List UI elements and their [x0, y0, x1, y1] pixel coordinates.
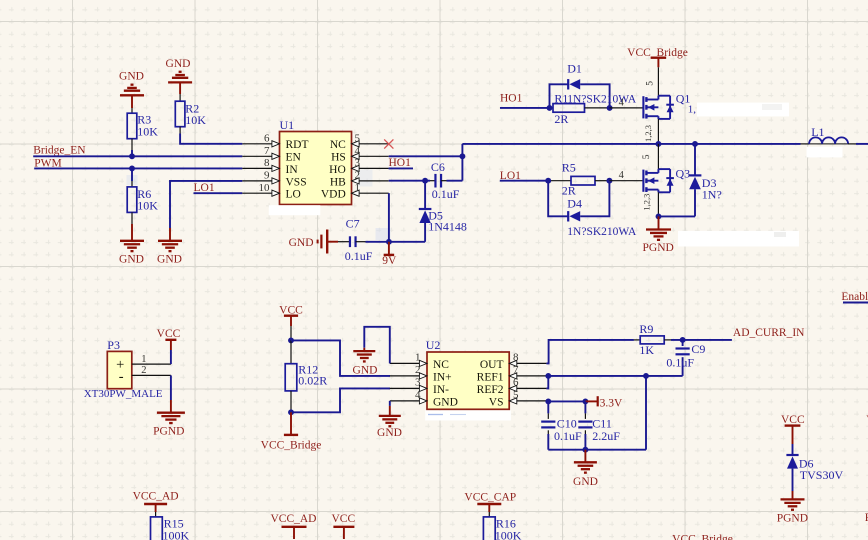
wire HO1 to R1	[500, 107, 553, 109]
svg-text:HB: HB	[330, 176, 346, 188]
wire HS node	[389, 144, 463, 181]
U2 pin 1 NC	[390, 352, 450, 371]
junction HS	[459, 153, 465, 159]
svg-text:NC: NC	[433, 359, 449, 371]
svg-text:GND: GND	[119, 253, 144, 265]
U2 pin 3 IN-	[390, 377, 449, 396]
svg-text:VCC: VCC	[157, 328, 181, 340]
ground GND for VSS	[157, 228, 182, 265]
power port VCC_AD above R15	[133, 491, 179, 517]
svg-text:VCC_Bridge: VCC_Bridge	[261, 440, 322, 452]
op-amp U2	[426, 338, 510, 409]
svg-text:NC: NC	[330, 139, 346, 151]
resistor R5 2R	[562, 161, 610, 198]
Q1 source pin 1,2,3	[643, 119, 658, 144]
svg-text:2R: 2R	[562, 184, 576, 198]
svg-text:VCC: VCC	[331, 513, 355, 525]
svg-text:1N4148: 1N4148	[428, 219, 467, 233]
svg-text:4: 4	[415, 389, 421, 401]
svg-text:AD_CURR_IN: AD_CURR_IN	[733, 327, 805, 339]
net label HO1 at U1 pin3	[389, 157, 412, 169]
svg-text:1,: 1,	[688, 103, 697, 115]
capacitor C6 0.1uF	[430, 160, 460, 201]
junction VS/C10	[545, 398, 551, 404]
svg-text:U1: U1	[280, 118, 295, 132]
wire VCC_Bridge to Q1 drain	[646, 67, 659, 95]
junction HB	[422, 178, 428, 184]
wire U2 NC to ground	[364, 327, 390, 364]
svg-text:9V: 9V	[382, 255, 397, 267]
svg-text:1,2,3: 1,2,3	[643, 125, 653, 142]
ground PGND at Q3	[643, 216, 674, 254]
svg-text:4: 4	[619, 170, 625, 181]
ground PGND below P3	[153, 400, 185, 437]
junction at R1 right	[607, 105, 613, 111]
svg-text:PGND: PGND	[643, 242, 674, 254]
svg-text:3: 3	[355, 157, 361, 169]
svg-text:REF2: REF2	[477, 384, 504, 396]
wire Bridge_EN	[33, 155, 242, 157]
svg-text:EN: EN	[286, 152, 302, 164]
diode D4 1N?SK210WA	[567, 197, 637, 238]
wire VS row	[546, 400, 585, 402]
svg-text:2R: 2R	[554, 112, 568, 126]
ground PGND below D6	[777, 491, 808, 524]
svg-text:6: 6	[513, 377, 519, 389]
svg-text:100K: 100K	[495, 529, 522, 540]
wire R2 to U1 pin6	[180, 134, 242, 144]
svg-text:D1: D1	[567, 62, 582, 76]
transistor Q3 (N-MOSFET)	[643, 166, 690, 192]
ground GND for U2 pin4	[377, 406, 402, 439]
junction on PWM	[129, 165, 135, 171]
svg-text:9: 9	[264, 170, 270, 182]
U1 pin 8 IN	[242, 157, 298, 176]
svg-text:4: 4	[619, 97, 625, 108]
svg-text:1: 1	[355, 182, 361, 194]
Q3 drain pin 5	[642, 144, 658, 169]
svg-text:REF1: REF1	[477, 371, 504, 383]
power port 9V	[382, 242, 397, 267]
svg-text:VDD: VDD	[321, 189, 346, 201]
wire to Q3 gate, pin 4	[609, 170, 642, 181]
svg-text:C7: C7	[346, 217, 360, 231]
net label HO1 (gate drive)	[500, 92, 523, 104]
power port VCC (bottom)	[331, 513, 355, 539]
svg-text:HO1: HO1	[389, 157, 412, 169]
junction REF2/REF1	[545, 373, 551, 379]
junction REF1 branch	[643, 373, 649, 379]
U2 pin 2 IN+	[390, 364, 452, 383]
capacitor C10 0.1uF	[541, 401, 582, 449]
svg-text:LO: LO	[286, 189, 301, 201]
svg-text:100K: 100K	[163, 529, 190, 540]
power port VCC above R12	[279, 305, 303, 341]
svg-text:10K: 10K	[137, 124, 158, 138]
svg-text:1N?SK210WA: 1N?SK210WA	[567, 94, 637, 106]
power port V (cut at edge)	[866, 414, 868, 426]
wire Enable	[843, 302, 868, 304]
wire switch node to L1	[462, 143, 800, 145]
U1 pin 2 HB	[330, 170, 389, 189]
svg-text:VSS: VSS	[286, 176, 307, 188]
svg-text:2: 2	[415, 364, 421, 376]
resistor R1 2R	[553, 92, 637, 127]
capacitor C9 0.1uF	[666, 340, 705, 376]
svg-text:0.1uF: 0.1uF	[554, 429, 582, 443]
svg-text:3.3V: 3.3V	[600, 397, 623, 409]
svg-text:GND: GND	[433, 396, 458, 408]
svg-text:1N?: 1N?	[702, 188, 722, 202]
junction switch node at D3	[692, 141, 698, 147]
svg-text:1,2,3: 1,2,3	[642, 194, 652, 211]
P3 pin 1	[132, 354, 171, 365]
capacitor C11 2.2uF	[578, 401, 620, 449]
svg-text:GND: GND	[573, 476, 598, 488]
svg-text:GND: GND	[157, 253, 182, 265]
svg-text:1: 1	[141, 354, 146, 365]
junction 9V node	[386, 239, 392, 245]
power port VCC above P3	[157, 328, 181, 350]
svg-text:10: 10	[259, 182, 271, 194]
junction R12 top	[288, 337, 294, 343]
wire C7 to 9V node	[366, 241, 389, 243]
net label P (cut at edge)	[865, 512, 868, 524]
Q3 source pin 1,2,3	[642, 192, 659, 216]
inductor L1	[801, 125, 868, 144]
ground GND above R2	[166, 58, 193, 101]
svg-text:VCC_AD: VCC_AD	[270, 513, 316, 525]
svg-text:0.1uF: 0.1uF	[432, 187, 460, 201]
wire to Q1 gate, pin 4	[610, 97, 643, 108]
power port VCC_AD (second)	[270, 513, 316, 539]
svg-text:GND: GND	[289, 237, 314, 249]
svg-text:1K: 1K	[639, 343, 654, 357]
svg-text:XT30PW_MALE: XT30PW_MALE	[84, 388, 163, 400]
diode D4 bypass loop	[548, 181, 609, 217]
wire R12 bottom to U2 IN-	[291, 388, 390, 412]
U2 pin 4 GND	[390, 389, 458, 408]
svg-text:GND: GND	[353, 365, 378, 377]
U2 pin 5 VS	[489, 389, 547, 408]
net label PWM	[34, 158, 61, 170]
svg-text:GND: GND	[377, 427, 402, 439]
resistor R9 1K	[639, 322, 671, 357]
wire HB node	[389, 180, 430, 182]
capacitor C7 0.1uF	[338, 217, 373, 263]
svg-text:2: 2	[141, 365, 146, 376]
svg-text:1N?SK210WA: 1N?SK210WA	[567, 226, 637, 238]
wire R12 top to U2 IN+	[291, 340, 390, 376]
svg-text:1: 1	[415, 352, 421, 364]
svg-text:IN+: IN+	[433, 371, 452, 383]
net label AD_CURR_IN	[733, 327, 805, 339]
svg-text:D4: D4	[567, 197, 582, 211]
svg-text:U2: U2	[426, 338, 441, 352]
wire P3 pin2 down	[170, 375, 172, 400]
ground GND below R6	[119, 224, 144, 265]
P3 pin 2	[132, 365, 171, 376]
svg-text:10K: 10K	[185, 113, 206, 127]
connector P3 XT30PW_MALE	[84, 338, 163, 400]
svg-text:OUT: OUT	[480, 359, 504, 371]
U1 pin 7 EN	[242, 145, 301, 164]
svg-text:2: 2	[355, 170, 361, 182]
svg-text:5: 5	[646, 81, 656, 86]
diode D3 1N?	[689, 144, 722, 217]
U1 pin 3 HO	[329, 157, 389, 176]
svg-text:R9: R9	[639, 322, 653, 336]
svg-text:8: 8	[264, 157, 270, 169]
svg-text:5: 5	[642, 154, 652, 159]
diode D1 bypass loop	[550, 84, 610, 108]
U1 pin 6 RDT	[242, 132, 308, 151]
svg-text:VCC_AD: VCC_AD	[133, 491, 179, 503]
svg-text:PGND: PGND	[153, 425, 184, 437]
wire VSS to ground	[170, 181, 242, 228]
wire LO1 to R5	[500, 180, 571, 182]
U2 pin 6 REF2	[477, 377, 547, 396]
U1 pin 4 HS	[331, 145, 389, 164]
redaction patches	[269, 103, 843, 421]
ground GND below C10/C11	[573, 450, 598, 489]
diode D5 1N4148	[419, 181, 467, 242]
junction PGND node	[656, 213, 662, 219]
wire REF2 to REF1	[546, 376, 548, 389]
net label LO1 (gate drive)	[500, 170, 521, 182]
resistor R6 10K	[127, 168, 158, 224]
U1 pin 9 VSS	[242, 170, 306, 189]
svg-text:IN: IN	[286, 164, 299, 176]
op-amp driver U1	[280, 118, 352, 204]
wire OUT to R9	[546, 340, 640, 364]
svg-text:Q3: Q3	[676, 166, 691, 180]
svg-text:HO1: HO1	[500, 92, 523, 104]
U2 pin 8 OUT	[480, 352, 547, 371]
resistor R15 100K	[151, 516, 190, 540]
svg-text:HS: HS	[331, 152, 346, 164]
wire R9 to AD_CURR_IN	[671, 339, 732, 341]
svg-text:GND: GND	[166, 58, 191, 70]
power port VCC_CAP above R16	[464, 492, 516, 517]
ground GND for NC	[353, 348, 378, 377]
power port VCC above D6	[781, 414, 805, 444]
ground GND at C7 (bar style)	[289, 230, 338, 254]
resistor R12 0.02R	[285, 340, 327, 412]
svg-text:TVS30V: TVS30V	[800, 468, 844, 482]
svg-text:10K: 10K	[137, 199, 158, 213]
power port VCC_Bridge	[627, 47, 688, 67]
junction R12 bottom	[288, 409, 294, 415]
resistor R16 100K	[483, 516, 521, 540]
junction on Bridge_EN	[129, 153, 135, 159]
wire VDD down	[388, 193, 390, 242]
svg-text:RDT: RDT	[286, 139, 309, 151]
svg-text:4: 4	[355, 145, 361, 157]
power port VCC_Bridge (cut at bottom)	[672, 534, 733, 540]
resistor R2 10K	[175, 101, 206, 133]
wire U2 GND pin to ground	[389, 401, 391, 406]
svg-text:Bridge_EN: Bridge_EN	[33, 145, 86, 157]
resistor R3 10K	[127, 113, 158, 157]
svg-text:LO1: LO1	[194, 182, 215, 194]
svg-text:7: 7	[513, 364, 519, 376]
svg-text:0.1uF: 0.1uF	[666, 356, 694, 370]
wire D5 to 9V node	[389, 241, 425, 243]
wire D3 to PGND node	[659, 215, 696, 217]
svg-text:GND: GND	[119, 71, 144, 83]
svg-text:PGND: PGND	[777, 512, 808, 524]
junction bottom node	[582, 447, 588, 453]
U1 pin 1 VDD	[321, 182, 389, 201]
power port 3.3V	[585, 396, 623, 409]
diode D6 TVS30V	[786, 444, 843, 491]
svg-text:Enabl: Enabl	[841, 291, 868, 303]
U1 pin 5 NC	[330, 132, 389, 151]
junction VS/C11	[582, 398, 588, 404]
net label Enable (cut)	[841, 291, 868, 303]
svg-text:VCC_Bridge: VCC_Bridge	[672, 534, 733, 540]
svg-text:3: 3	[415, 377, 421, 389]
net label LO1	[194, 182, 215, 194]
net label Bridge_EN	[33, 145, 86, 157]
svg-text:0.1uF: 0.1uF	[345, 249, 373, 263]
svg-text:0.02R: 0.02R	[298, 374, 327, 388]
transistor Q1 (N-MOSFET)	[643, 91, 696, 119]
svg-text:-: -	[119, 369, 124, 385]
junction at R1 left	[547, 105, 553, 111]
svg-text:C9: C9	[691, 342, 705, 356]
svg-text:HO: HO	[329, 164, 346, 176]
junction at R5 left	[545, 178, 551, 184]
svg-text:7: 7	[264, 145, 270, 157]
svg-text:VS: VS	[489, 396, 504, 408]
svg-text:VCC_CAP: VCC_CAP	[464, 492, 516, 504]
U2 pin 7 REF1	[477, 364, 547, 383]
no-connect X on U1 pin 5	[384, 139, 393, 148]
wire REF1 row	[546, 375, 682, 377]
svg-text:R5: R5	[562, 161, 576, 175]
power port VCC_Bridge below R12	[261, 412, 322, 451]
wire VCC to P3 pin1	[170, 350, 172, 364]
wire HO1 stub	[389, 167, 413, 169]
ground GND above R3	[119, 71, 144, 114]
svg-text:IN-: IN-	[433, 384, 449, 396]
U1 pin 10 LO	[242, 182, 301, 201]
svg-text:C6: C6	[431, 160, 445, 174]
wire LO1 to U1 pin10	[194, 192, 243, 194]
svg-text:6: 6	[264, 132, 270, 144]
junction at R5 right	[606, 178, 612, 184]
wire PWM	[34, 167, 242, 169]
diode D1 1N?SK210WA	[567, 62, 582, 90]
wire REF1 branch down	[548, 376, 646, 450]
svg-text:P3: P3	[107, 338, 120, 352]
svg-text:5: 5	[513, 389, 519, 401]
svg-text:8: 8	[513, 352, 519, 364]
svg-text:VCC: VCC	[781, 414, 805, 426]
svg-text:5: 5	[355, 132, 361, 144]
svg-text:2.2uF: 2.2uF	[592, 429, 620, 443]
junction switch node at Q1	[655, 141, 661, 147]
junction at C9	[680, 337, 686, 343]
